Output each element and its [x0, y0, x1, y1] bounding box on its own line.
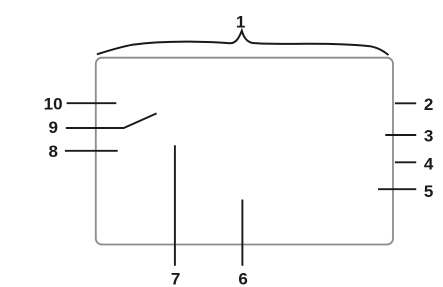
leader line 6 (vertical)	[241, 200, 243, 266]
svg-text:5: 5	[424, 182, 433, 201]
svg-text:4: 4	[424, 155, 434, 174]
leader line 9 (bent)	[66, 113, 157, 128]
brace for 1	[98, 31, 388, 55]
svg-text:8: 8	[48, 142, 57, 161]
svg-text:7: 7	[171, 270, 180, 287]
leader line 3	[385, 134, 416, 136]
svg-text:9: 9	[48, 118, 57, 137]
svg-text:2: 2	[424, 95, 433, 114]
svg-text:6: 6	[238, 270, 247, 287]
leader line 8	[65, 150, 118, 152]
leader line 10	[67, 102, 117, 104]
leader line 7 (vertical)	[174, 145, 176, 265]
svg-text:1: 1	[236, 13, 245, 32]
leader line 5	[378, 188, 416, 190]
leader line 4	[395, 161, 416, 163]
device body outline	[96, 58, 393, 245]
svg-text:3: 3	[424, 127, 433, 146]
svg-text:10: 10	[44, 94, 63, 113]
leader line 2	[395, 102, 416, 104]
